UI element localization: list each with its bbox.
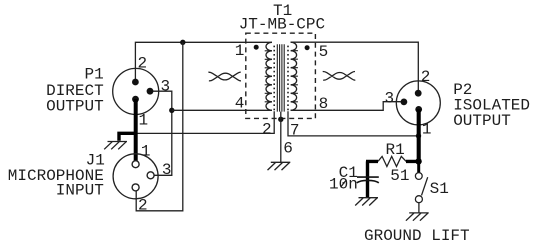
- transformer T1 dashed box: [246, 33, 316, 118]
- svg-text:GROUND LIFT: GROUND LIFT: [364, 227, 470, 245]
- P2 pin 1: [415, 106, 422, 113]
- wire: junction to S1 upper terminal: [417, 163, 420, 172]
- T1 primary phase dot: [254, 45, 259, 50]
- svg-text:P1: P1: [85, 66, 104, 84]
- T1 primary winding (pins 1-4): [266, 42, 272, 110]
- wire: T1 pin 7 shield lead to P2 pin1 bus: [288, 111, 417, 136]
- switch S1 upper terminal: [415, 173, 422, 180]
- wire: J1 pin2 loop (down at x=182.8, left along y=210.8, up into J1 pin2): [136, 42, 183, 211]
- P2 pin 3: [401, 99, 408, 106]
- T1 secondary phase dot: [305, 45, 310, 50]
- resistor R1 zigzag: [378, 156, 406, 166]
- junction blob: R1 / S1 / P2 pin1 node: [415, 158, 421, 164]
- svg-text:1: 1: [235, 42, 245, 60]
- junction dot: node pin3/pin4 rail: [169, 108, 174, 113]
- svg-text:OUTPUT: OUTPUT: [453, 112, 511, 130]
- wire: P1 pin2 up to top rail, right to transformer pin 1: [135, 42, 272, 82]
- wire: rail to transformer pin 4: [172, 109, 272, 111]
- T1 secondary faraday shield (pin 7, dotted): [287, 46, 289, 112]
- svg-text:3: 3: [161, 78, 171, 96]
- svg-text:2: 2: [138, 55, 148, 73]
- thick wire: P2 pin 1 down to R1/S1 junction: [417, 109, 421, 163]
- svg-text:R1: R1: [386, 141, 405, 159]
- svg-text:S1: S1: [430, 180, 449, 198]
- svg-text:2: 2: [262, 121, 272, 139]
- chassis ground (C1): [355, 198, 378, 206]
- capacitor C1 bottom plate (curved): [357, 180, 379, 182]
- wire: T1 pin 5 to P2 pin 2: [291, 42, 419, 90]
- wire: T1 pin 8 to P2 pin 3 (jog): [291, 102, 401, 111]
- connector J1 (female XLR) body: [113, 154, 158, 199]
- chassis ground (S1): [406, 213, 429, 221]
- switch S1 lower terminal: [415, 196, 422, 203]
- connector P1 (male XLR) body: [113, 68, 159, 114]
- svg-text:1: 1: [141, 142, 151, 160]
- capacitor C1 lead (thick vertical): [366, 161, 369, 197]
- connector P2 (male XLR) body: [396, 81, 440, 125]
- J1 pin 2 (socket): [132, 184, 139, 191]
- thick jog to input chassis ground: [119, 133, 138, 141]
- wire: S1 lower terminal to ground: [418, 203, 420, 213]
- P1 pin 1: [132, 96, 139, 103]
- junction dot on pin 6 core lead: [278, 117, 283, 122]
- J1 pin 1 (socket): [132, 161, 139, 168]
- svg-text:1: 1: [422, 120, 432, 138]
- resistor R1 thick leads: [366, 160, 419, 163]
- svg-text:OUTPUT: OUTPUT: [46, 97, 104, 115]
- svg-text:3: 3: [162, 161, 172, 179]
- svg-text:1: 1: [139, 112, 149, 130]
- svg-text:5: 5: [319, 43, 329, 61]
- wire: P1 pin3 right, down, to J1 pin3: [150, 91, 172, 175]
- T1 primary faraday shield (pin 2, dotted): [273, 46, 275, 112]
- svg-text:7: 7: [290, 122, 300, 140]
- twisted pair symbol (output side): [323, 71, 356, 80]
- slash of zero in 10n: [341, 180, 347, 188]
- P2 pin 2: [415, 90, 422, 97]
- T1 core laminations: [277, 44, 284, 111]
- svg-text:3: 3: [385, 90, 395, 108]
- twisted pair symbol (input side): [208, 72, 241, 81]
- chassis ground (input): [104, 142, 127, 150]
- T1 secondary winding ticks: [291, 51, 298, 102]
- junction dot: top rail / J1 pin2 riser: [180, 40, 185, 45]
- switch S1 lever: [422, 177, 428, 195]
- T1 secondary winding (pins 5-8): [291, 42, 297, 110]
- P1 pin 3: [147, 88, 154, 95]
- thick ground bus: P1 pin1 down to J1 pin1: [134, 99, 138, 161]
- capacitor C1 top plate: [357, 176, 379, 178]
- junction dot: pin7 wire on P2 pin1 bus: [416, 133, 421, 138]
- svg-text:2: 2: [421, 68, 431, 86]
- svg-text:10n: 10n: [329, 176, 358, 194]
- T1 primary winding ticks: [265, 51, 272, 102]
- svg-text:51: 51: [390, 167, 409, 185]
- J1 pin 3 (socket): [147, 172, 154, 179]
- wire: T1 pin 6 core lead down to ground: [280, 112, 282, 162]
- svg-text:2: 2: [138, 196, 148, 214]
- chassis ground (T1 pin 6): [268, 162, 291, 170]
- svg-text:INPUT: INPUT: [56, 181, 104, 199]
- svg-text:6: 6: [283, 139, 293, 157]
- svg-text:JT-MB-CPC: JT-MB-CPC: [239, 15, 325, 33]
- wire: transformer pin2 shield lead to ground bus: [137, 111, 274, 133]
- P1 pin 2: [132, 79, 139, 86]
- svg-text:4: 4: [235, 95, 245, 113]
